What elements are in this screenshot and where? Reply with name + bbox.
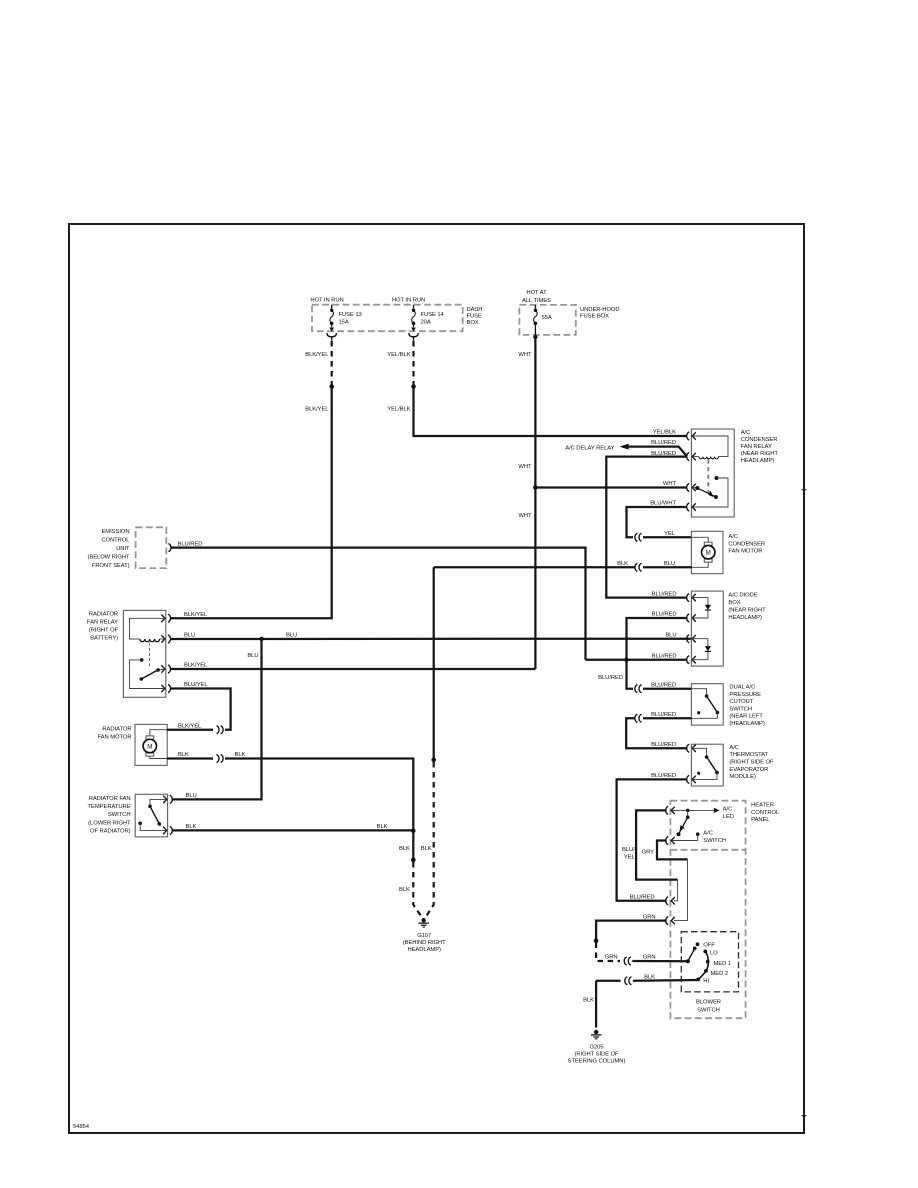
label A/C LED (723, 806, 734, 819)
svg-text:BLK: BLK (399, 846, 410, 852)
A/C relay coil (699, 457, 719, 459)
svg-text:CONDENSER: CONDENSER (728, 541, 765, 547)
diode D2 leg (692, 639, 708, 660)
motor M1 A/C condenser fan (702, 542, 715, 562)
emission control unit box (136, 527, 167, 568)
under-hood fuse box (519, 305, 575, 335)
motor internal wire top (692, 537, 708, 542)
wire BLU/RED from ECU branch to diode pin4 (585, 659, 687, 661)
op A/C condenser fan relay box (691, 429, 734, 517)
node WHT tee (533, 485, 538, 490)
svg-text:BLK: BLK (185, 824, 196, 830)
svg-text:SWITCH: SWITCH (108, 812, 131, 818)
heater panel separator dashed (670, 849, 745, 851)
pin terminal BLK of temperature switch (163, 826, 172, 834)
svg-text:HOT IN RUN: HOT IN RUN (392, 297, 425, 303)
svg-text:YEL: YEL (624, 855, 636, 861)
thermostat blade (707, 757, 719, 774)
svg-text:RADIATOR FAN: RADIATOR FAN (89, 796, 131, 802)
svg-text:BLU/WHT: BLU/WHT (650, 501, 676, 507)
svg-text:BLU/RED: BLU/RED (651, 712, 676, 718)
A/C relay fixed contact (715, 476, 719, 480)
svg-text:(BEHIND RIGHT: (BEHIND RIGHT (403, 940, 446, 946)
svg-text:CONTROL: CONTROL (751, 810, 780, 816)
pin terminal diode box 1 (687, 594, 696, 602)
svg-text:RADIATOR: RADIATOR (102, 726, 131, 732)
wire BLK dashed left leg to G107 (413, 862, 421, 917)
svg-text:EVAPORATOR: EVAPORATOR (729, 767, 768, 773)
pin terminal WHT of A/C relay (687, 483, 696, 491)
svg-text:(RIGHT SIDE OF: (RIGHT SIDE OF (574, 1052, 619, 1058)
svg-text:FUSE 13: FUSE 13 (339, 312, 362, 318)
svg-text:TEMPERATURE: TEMPERATURE (88, 804, 131, 810)
node BLU/RED tee (624, 657, 629, 662)
svg-text:HI: HI (703, 979, 709, 985)
radiator relay coil (140, 639, 160, 642)
svg-text:M: M (706, 550, 711, 557)
diode D1 leg (692, 598, 708, 618)
wire BLK/YEL from radiator motor (167, 729, 213, 731)
svg-text:BLK/YEL: BLK/YEL (305, 406, 329, 412)
radiator fan temperature switch box (135, 794, 167, 837)
A/C switch contact dot (696, 832, 700, 840)
A/C relay armature dashed link (707, 460, 709, 493)
temperature switch contact pivot (148, 804, 152, 808)
wire BLU/WHT from relay to connector (627, 507, 688, 537)
label G107 (BEHIND RIGHT HEADLAMP) (403, 933, 446, 953)
pin terminal BLU/YEL of radiator relay (161, 684, 170, 692)
pin terminal BLU/RED at panel edge (666, 897, 675, 905)
pin terminal diode box 2 (687, 614, 696, 622)
wire BLK from connector to ground drop (225, 758, 413, 859)
wire WHT vertical from under-hood fuse box (534, 337, 536, 669)
pressure switch internal top leg (691, 689, 706, 696)
svg-text:BLU/RED: BLU/RED (652, 591, 677, 597)
svg-text:BLOWER: BLOWER (696, 1000, 721, 1006)
svg-text:HEADLAMP): HEADLAMP) (407, 947, 441, 953)
svg-text:FAN RELAY: FAN RELAY (741, 444, 772, 450)
svg-text:BATTERY): BATTERY) (90, 635, 118, 641)
label A/C CONDENSER FAN RELAY (NEAR RIGHT HEADLAMP) (741, 430, 779, 464)
svg-text:A/C: A/C (728, 534, 738, 540)
svg-text:UNDER-HOOD: UNDER-HOOD (580, 307, 620, 313)
svg-text:GRY: GRY (642, 849, 655, 855)
svg-text:A/C: A/C (741, 430, 751, 436)
fuse 55A (534, 305, 538, 335)
pin terminal BLU/RED of ECU (169, 543, 172, 551)
pin terminal BLU of temperature switch (163, 795, 172, 803)
pin terminal BLK/YEL coil feed of radiator relay (161, 614, 170, 622)
label RADIATOR FAN RELAY (RIGHT OF BATTERY) (87, 611, 119, 641)
label A/C SWITCH (703, 831, 726, 844)
svg-text:15A: 15A (339, 319, 349, 325)
svg-text:CUTOUT: CUTOUT (729, 699, 753, 705)
wire BLU drop to temperature switch (172, 639, 262, 800)
svg-text:(HEADLAMP): (HEADLAMP) (729, 721, 764, 727)
svg-text:EMISSION: EMISSION (101, 529, 129, 535)
node GRN splice (594, 938, 599, 943)
svg-text:54854: 54854 (73, 1124, 90, 1130)
svg-text:BLK: BLK (377, 824, 388, 830)
svg-text:BLU/RED: BLU/RED (651, 440, 676, 446)
radiator relay internal: contact to pin4 (129, 660, 165, 689)
border tick right upper (802, 489, 807, 491)
pin terminal A/C LED at panel edge (666, 806, 675, 814)
A/C relay switch blade (692, 486, 718, 499)
svg-text:M: M (147, 743, 152, 750)
diode D2 (705, 646, 711, 651)
wire BLK to blower switch (596, 980, 621, 982)
svg-text:BLK: BLK (644, 975, 655, 981)
wire YEL to A/C condenser fan motor (643, 536, 692, 538)
blower switch OFF contact (696, 942, 700, 946)
svg-text:WHT: WHT (663, 481, 677, 487)
svg-text:UNIT: UNIT (116, 546, 130, 552)
svg-text:BLU/RED: BLU/RED (598, 675, 623, 681)
svg-text:MED 1: MED 1 (713, 961, 731, 967)
wire BLK/YEL from WHT vertical to radiator fan relay switch (170, 668, 535, 670)
pressure switch blade (707, 696, 720, 714)
node fuse13 splice (329, 384, 334, 389)
node BLU tee (259, 637, 264, 642)
fuse F13 15A (329, 305, 334, 332)
svg-text:BLU: BLU (185, 793, 196, 799)
node BLK splice on A/C motor ground drop (431, 758, 436, 763)
svg-text:(NEAR RIGHT: (NEAR RIGHT (741, 451, 779, 457)
svg-text:PANEL: PANEL (751, 817, 770, 823)
svg-text:HOT AT: HOT AT (526, 290, 547, 296)
temperature switch fixed contact (138, 821, 142, 825)
svg-text:YEL/BLK: YEL/BLK (387, 406, 410, 412)
svg-text:(RIGHT OF: (RIGHT OF (89, 627, 119, 633)
svg-text:BLU/RED: BLU/RED (651, 682, 676, 688)
A/C diode box (691, 591, 723, 666)
ground G205 (591, 1030, 602, 1039)
svg-text:BLU/RED: BLU/RED (178, 541, 203, 547)
ground G107 (418, 918, 429, 927)
svg-text:(LOWER RIGHT: (LOWER RIGHT (88, 820, 131, 826)
wire BLK connector to HI contact (633, 979, 698, 982)
temperature switch internal wire bottom (140, 823, 167, 830)
node BLK tee at temperature switch wire (411, 829, 416, 834)
svg-text:55A: 55A (542, 315, 552, 321)
wire BLU/RED connector to pressure switch (643, 688, 691, 690)
wire BLU/RED from pressure switch bottom to thermostat (643, 717, 691, 719)
svg-text:SWITCH: SWITCH (729, 706, 752, 712)
wire BLU/YEL from relay down to motor connector (170, 688, 230, 729)
wire GRN dashed to connector (596, 943, 620, 962)
svg-text:BLU: BLU (184, 633, 195, 639)
radiator motor internal wire bottom (150, 756, 167, 758)
svg-text:(BELOW RIGHT: (BELOW RIGHT (87, 554, 130, 560)
heater control panel box (670, 801, 745, 1019)
connector inline BLK motor (216, 754, 223, 762)
svg-text:FUSE BOX: FUSE BOX (580, 314, 609, 320)
node under-hood fuse output (533, 335, 537, 339)
blower switch MED 1 contact (706, 960, 710, 964)
pin terminal A/C switch at panel edge (666, 836, 675, 844)
svg-text:OF RADIATOR): OF RADIATOR) (90, 829, 131, 835)
wire YEL/BLK solid from splice to A/C condenser fan relay (414, 386, 688, 436)
svg-text:FAN MOTOR: FAN MOTOR (728, 549, 762, 555)
svg-text:A/C DIODE: A/C DIODE (728, 593, 757, 599)
svg-text:SWITCH: SWITCH (703, 838, 726, 844)
svg-text:FUSE 14: FUSE 14 (421, 312, 445, 318)
label HEATER CONTROL PANEL (751, 803, 780, 824)
svg-text:G205: G205 (589, 1045, 603, 1051)
svg-text:GRN: GRN (643, 955, 656, 961)
svg-text:BLK: BLK (583, 998, 594, 1004)
blower switch LO contact (703, 950, 707, 954)
wire BLU/RED arrow branch to A/C delay relay (620, 444, 687, 457)
pressure switch internal bottom leg (691, 713, 717, 719)
label A/C DIODE BOX (NEAR RIGHT HEADLAMP) (728, 593, 766, 622)
svg-text:20A: 20A (421, 319, 431, 325)
svg-text:A/C: A/C (729, 745, 739, 751)
svg-text:LED: LED (723, 814, 734, 820)
pin terminal diode box 4 (687, 656, 696, 664)
svg-text:BLU/: BLU/ (622, 847, 635, 853)
svg-text:THERMOSTAT: THERMOSTAT (729, 752, 768, 758)
svg-text:HOT IN RUN: HOT IN RUN (310, 297, 343, 303)
svg-text:MODULE): MODULE) (729, 774, 756, 780)
wire BLU from motor to connector (643, 566, 692, 568)
svg-text:BLU/RED: BLU/RED (651, 742, 676, 748)
svg-text:HEADLAMP): HEADLAMP) (728, 615, 762, 621)
wire BLK/YEL solid from splice to radiator fan relay (170, 386, 331, 618)
radiator relay fixed contact (140, 658, 144, 662)
node fuse14 splice (411, 384, 416, 389)
thermostat actuator dot (697, 772, 700, 775)
A/C thermostat box (691, 744, 723, 786)
blower switch HI contact (696, 978, 700, 982)
svg-text:WHT: WHT (518, 352, 532, 358)
svg-text:BLU/RED: BLU/RED (652, 653, 677, 659)
pin terminal diode box 3 (687, 635, 696, 643)
svg-text:SWITCH: SWITCH (697, 1008, 720, 1014)
wire BLK/YEL dashed from fuse 13 (331, 341, 333, 385)
label HOT AT ALL TIMES (522, 290, 551, 304)
pin terminal BLK/YEL switch of radiator relay (161, 665, 170, 673)
connector inline BLK/YEL motor (216, 726, 223, 734)
wire BLU/RED from relay coil down to diode box (606, 457, 687, 598)
border tick right lower (801, 1115, 806, 1117)
svg-text:HEADLAMP): HEADLAMP) (741, 458, 775, 464)
svg-text:YEL/BLK: YEL/BLK (387, 352, 410, 358)
wire BLU/RED from diode pin2 down to pressure switch (626, 618, 687, 689)
connector inline BLU/RED pressure switch top (635, 685, 642, 693)
A/C relay internal: coil feed from YEL/BLK pin (692, 436, 728, 457)
connector inline BLK blower (625, 977, 632, 985)
svg-text:MED 2: MED 2 (710, 971, 728, 977)
wire BLU/RED from ECU to diode box branch (170, 548, 585, 660)
blower switch MED 2 contact (704, 969, 708, 973)
svg-text:(NEAR LEFT: (NEAR LEFT (729, 714, 763, 720)
wire BLK from connector to ground drop (434, 566, 635, 568)
connector inline BLU/WHT to YEL (635, 533, 642, 541)
svg-text:BOX: BOX (728, 600, 740, 606)
label DUAL A/C PRESSURE CUTOUT SWITCH (NEAR LEFT (HEADLAMP) (729, 685, 764, 728)
thermostat contact pivot (705, 755, 709, 759)
radiator relay armature dashed link (148, 642, 150, 668)
svg-text:DASH: DASH (467, 307, 483, 313)
label G205 (RIGHT SIDE OF STEERING COLUMN) (568, 1045, 626, 1065)
wire BLK vertical to G107 (433, 567, 435, 760)
svg-text:ALL TIMES: ALL TIMES (522, 298, 551, 304)
svg-text:BLK: BLK (234, 752, 245, 758)
fuse F14 20A (411, 305, 416, 332)
A/C switch wire inside panel (672, 840, 698, 842)
A/C switch blade with arrow (676, 817, 687, 836)
svg-text:STEERING COLUMN): STEERING COLUMN) (568, 1059, 626, 1065)
svg-text:RADIATOR: RADIATOR (89, 611, 118, 617)
svg-text:CONTROL: CONTROL (101, 537, 130, 543)
svg-text:WHT: WHT (518, 464, 532, 470)
label BLOWER SWITCH (696, 1000, 721, 1014)
label RADIATOR FAN TEMPERATURE SWITCH (LOWER RIGHT OF RADIATOR) (88, 796, 131, 835)
label EMISSION CONTROL UNIT (BELOW RIGHT FRONT SEAT) (87, 529, 130, 569)
wire BLK from temperature switch to ground node (172, 829, 413, 831)
wire WHT to A/C relay common (535, 486, 687, 488)
diode D1 (705, 605, 711, 610)
blower switch inner box (681, 932, 738, 992)
wire A/C LED inside panel with arrow (672, 808, 720, 813)
svg-text:BLU: BLU (286, 632, 297, 638)
A/C relay internal: coil to BLU/RED pin (692, 456, 699, 458)
svg-text:YEL/BLK: YEL/BLK (653, 430, 676, 436)
radiator relay switch blade (139, 668, 165, 681)
svg-text:BLK/YEL: BLK/YEL (184, 612, 208, 618)
svg-text:BLU: BLU (247, 653, 258, 659)
wire GRN solid to blower switch (632, 960, 688, 962)
wire thin riser to BLU/RED terminal (674, 880, 678, 901)
pin terminal YEL/BLK of A/C relay (687, 432, 696, 440)
radiator fan motor box (135, 724, 167, 765)
blower switch wiper (686, 947, 697, 964)
node A/C LED branch (686, 809, 690, 813)
svg-text:BOX: BOX (467, 320, 479, 326)
svg-text:GRN: GRN (643, 914, 656, 920)
svg-text:BLU/YEL: BLU/YEL (184, 682, 208, 688)
label DASH FUSE BOX (467, 307, 483, 326)
svg-text:BLU/RED: BLU/RED (630, 894, 655, 900)
page border frame (69, 224, 804, 1133)
svg-text:YEL: YEL (664, 531, 676, 537)
wire BLU/RED from thermostat down to heater panel (617, 779, 687, 900)
blower switch contact arc (698, 951, 708, 979)
svg-text:(NEAR RIGHT: (NEAR RIGHT (728, 608, 766, 614)
svg-text:GRN: GRN (605, 955, 618, 961)
wire BLK dashed right leg to G107 (426, 762, 434, 917)
svg-text:BLK/YEL: BLK/YEL (178, 723, 202, 729)
svg-text:BLK: BLK (617, 561, 628, 567)
pin terminal thermostat bottom (687, 775, 696, 783)
thermostat internal top leg (691, 748, 706, 757)
label UNDER-HOOD FUSE BOX (580, 307, 620, 320)
svg-text:BLK/YEL: BLK/YEL (305, 352, 329, 358)
radiator relay internal: coil stub to pin2 (133, 638, 165, 640)
dash fuse box (312, 305, 463, 332)
pin terminal BLU/RED coil of A/C relay (687, 453, 696, 461)
svg-text:FAN MOTOR: FAN MOTOR (97, 734, 131, 740)
connector cup below fuse 14 (409, 333, 418, 341)
pin terminal thermostat top (687, 744, 696, 752)
svg-text:OFF: OFF (703, 943, 715, 949)
svg-text:HEATER: HEATER (751, 803, 774, 809)
radiator motor internal wire top (150, 730, 167, 736)
wire thin riser GRY to GRN terminal (674, 859, 688, 920)
svg-text:FAN RELAY: FAN RELAY (87, 619, 118, 625)
label FUSE 13 15A (339, 312, 362, 326)
pin terminal BLU/WHT of A/C relay (687, 503, 696, 511)
wire GRY loop from A/C switch terminal (657, 841, 688, 860)
svg-text:A/C: A/C (703, 831, 713, 837)
wire YEL/BLK dashed from fuse 14 (412, 341, 414, 385)
svg-text:BLU/RED: BLU/RED (652, 612, 677, 618)
svg-text:BLU: BLU (665, 632, 676, 638)
svg-text:DUAL A/C: DUAL A/C (729, 685, 755, 691)
svg-text:BLK: BLK (399, 887, 410, 893)
svg-text:BLU: BLU (664, 561, 675, 567)
wire BLU/YEL loop from A/C LED terminal (636, 810, 677, 879)
svg-text:FRONT SEAT): FRONT SEAT) (92, 563, 130, 569)
dual A/C pressure cutout switch box (691, 684, 723, 725)
temperature switch internal wire top (150, 799, 167, 806)
svg-text:PRESSURE: PRESSURE (729, 692, 761, 698)
A/C condenser fan motor box (691, 531, 723, 573)
pressure switch contact pivot (705, 694, 709, 698)
connector inline BLU to BLK (635, 563, 642, 571)
motor M2 radiator fan (143, 736, 156, 756)
svg-text:FUSE: FUSE (467, 314, 482, 320)
connector inline GRN (624, 957, 631, 965)
wire BLU from radiator relay to diode box (170, 638, 692, 641)
label FUSE 14 20A (421, 312, 445, 326)
svg-text:LO: LO (710, 951, 718, 957)
svg-text:A/C DELAY RELAY: A/C DELAY RELAY (565, 446, 614, 452)
connector cup below fuse 13 (327, 333, 336, 341)
connector inline BLU/RED pressure switch bottom (635, 714, 642, 722)
wire BLU/RED connector down to thermostat pin1 (626, 718, 687, 748)
label RADIATOR FAN MOTOR (97, 726, 131, 740)
motor internal wire bottom (692, 562, 708, 567)
svg-text:BLK: BLK (421, 846, 432, 852)
pressure switch actuator dot (697, 711, 700, 714)
svg-text:CONDENSER: CONDENSER (741, 437, 778, 443)
pin terminal GRN at panel edge (666, 917, 675, 925)
label A/C THERMOSTAT (RIGHT SIDE OF EVAPORATOR MODULE) (729, 745, 774, 780)
pin terminal BLU coil of radiator relay (161, 635, 170, 643)
svg-text:(RIGHT SIDE OF: (RIGHT SIDE OF (729, 760, 774, 766)
A/C relay internal: contact to BLU/WHT pin (692, 478, 728, 507)
wire BLK down to G205 (595, 981, 597, 1028)
svg-text:BLK/YEL: BLK/YEL (184, 663, 208, 669)
svg-text:BLU/RED: BLU/RED (651, 773, 676, 779)
svg-text:BLK: BLK (178, 752, 189, 758)
node BLK splice to dashed (411, 858, 416, 863)
svg-text:A/C: A/C (723, 806, 733, 812)
wire BLK from radiator motor (167, 757, 213, 759)
radiator relay internal: coil feed (129, 618, 165, 639)
wire GRN from tee to panel (596, 921, 667, 941)
A/C switch link dot (686, 810, 690, 819)
svg-text:G107: G107 (417, 933, 431, 939)
svg-text:WHT: WHT (518, 513, 532, 519)
radiator fan relay box (123, 610, 165, 697)
temperature switch blade (150, 806, 161, 825)
label BLU/YEL vertical (622, 847, 636, 861)
label A/C CONDENSER FAN MOTOR (728, 534, 765, 555)
